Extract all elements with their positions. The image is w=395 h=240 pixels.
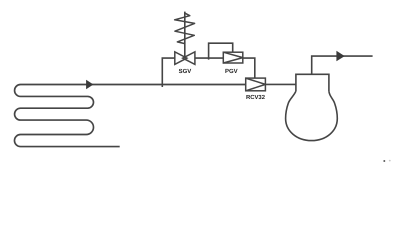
flow arrow on vessel outlet: [336, 51, 344, 62]
flow arrow on coil outlet: [86, 80, 93, 89]
svg-text:PGV: PGV: [225, 68, 238, 75]
valve RCV32 body: [246, 78, 266, 91]
wire PGV to RCV32 riser: [243, 58, 255, 78]
valve RCV32 internal triangle: [246, 78, 266, 91]
valve PGV internal triangle: [223, 52, 243, 63]
stray mark bottom right: [383, 160, 385, 162]
valve PGV body: [223, 52, 243, 63]
vessel outlet stub: [312, 56, 373, 74]
heating coil serpentine with main pipe to RCV32: [14, 85, 245, 147]
svg-text:RCV32: RCV32: [246, 94, 266, 101]
spring symbol above SGV: [175, 13, 195, 43]
svg-text:SGV: SGV: [179, 68, 192, 75]
vessel neck: [296, 74, 329, 91]
vessel body: [286, 91, 338, 140]
valve SGV bowtie: [175, 52, 195, 65]
wire SGV to PGV: [195, 57, 223, 59]
pilot loop above PGV: [209, 43, 233, 59]
wire branch riser left: [162, 58, 175, 87]
wire RCV32 to vessel: [265, 83, 296, 85]
valve SGV stem: [184, 12, 186, 59]
